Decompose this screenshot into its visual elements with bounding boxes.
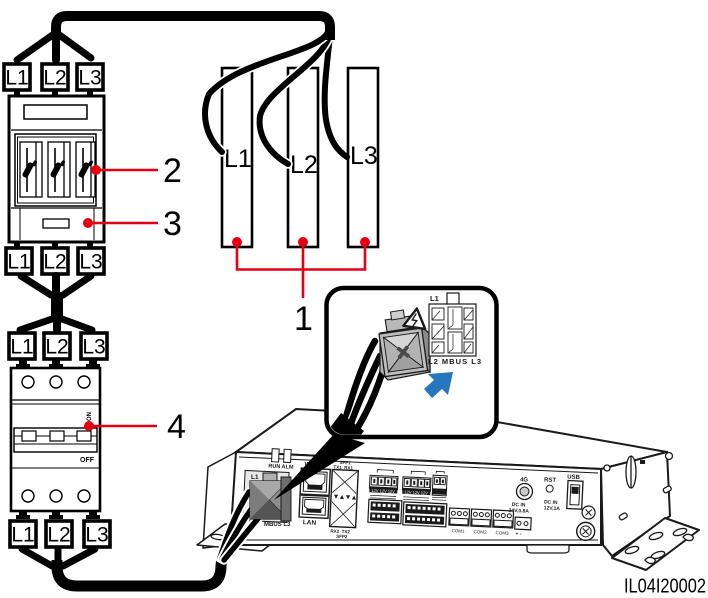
svg-text:12V,1A: 12V,1A (544, 505, 561, 512)
svg-text:L2: L2 (43, 251, 66, 274)
svg-text:L1: L1 (224, 145, 252, 173)
svg-text:L3: L3 (350, 142, 378, 170)
svg-text:OFF: OFF (80, 457, 95, 464)
svg-text:L1: L1 (251, 474, 259, 481)
svg-text:MBUS L3: MBUS L3 (264, 522, 291, 528)
svg-text:LAN: LAN (303, 519, 317, 527)
svg-text:L1: L1 (430, 294, 439, 303)
svg-text:L2: L2 (45, 336, 68, 359)
svg-text:L3: L3 (82, 336, 105, 359)
svg-text:ON: ON (87, 412, 93, 421)
svg-text:RST: RST (544, 477, 557, 484)
svg-text:L3: L3 (78, 67, 101, 90)
svg-text:L1: L1 (11, 524, 34, 547)
svg-text:IL04I20002: IL04I20002 (624, 575, 706, 598)
svg-text:4G: 4G (520, 477, 529, 483)
svg-text:3: 3 (163, 205, 182, 243)
svg-text:4: 4 (167, 408, 186, 446)
svg-text:RUN ALM: RUN ALM (268, 464, 294, 471)
svg-text:24V,0.8A: 24V,0.8A (508, 508, 529, 515)
svg-text:1: 1 (294, 300, 313, 338)
svg-text:L1: L1 (5, 67, 28, 90)
svg-text:+ -: + - (515, 531, 522, 537)
svg-text:L2: L2 (47, 524, 70, 547)
svg-text:2: 2 (163, 152, 182, 190)
svg-text:L2: L2 (290, 151, 318, 179)
svg-text:L2 MBUS L3: L2 MBUS L3 (428, 357, 481, 366)
svg-text:COM1: COM1 (451, 528, 465, 534)
svg-text:L3: L3 (85, 524, 108, 547)
svg-text:SFP2: SFP2 (336, 534, 348, 540)
svg-text:L1: L1 (7, 251, 30, 274)
svg-text:L2: L2 (43, 67, 66, 90)
svg-text:COM3: COM3 (495, 530, 509, 536)
svg-text:COM2: COM2 (473, 529, 487, 535)
svg-text:L1: L1 (10, 336, 33, 359)
svg-text:L3: L3 (79, 251, 102, 274)
